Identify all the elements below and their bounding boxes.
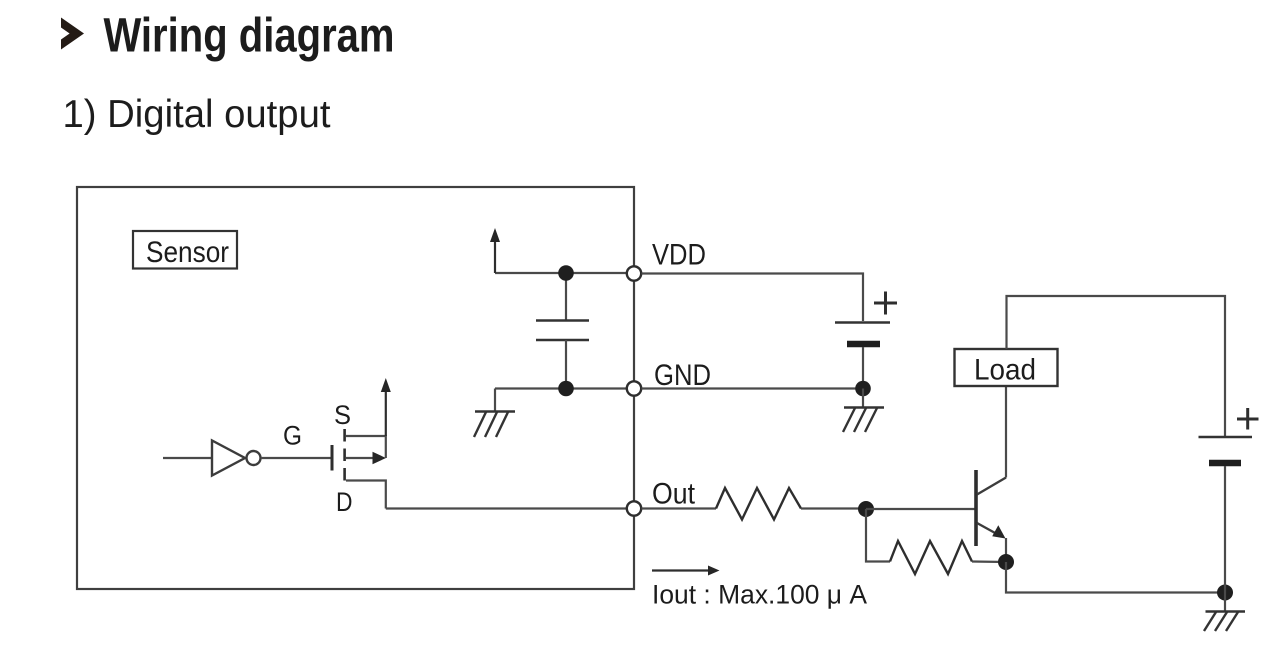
wire load top (1007, 296, 1226, 436)
wire node A down to R2 (866, 509, 890, 562)
capacitor C1 (536, 273, 589, 389)
transistor Q2 (976, 470, 1006, 546)
svg-text:Sensor: Sensor (146, 236, 229, 269)
node junction BT1/GND2 (855, 381, 871, 397)
wire VDD rail (495, 272, 630, 274)
svg-text:1) Digital output: 1) Digital output (63, 93, 331, 136)
wire GND rail (495, 387, 630, 389)
wire emitter down (1005, 538, 1007, 562)
resistor R2 (890, 541, 972, 574)
wire source (S) (346, 436, 386, 458)
svg-text:S: S (334, 400, 351, 430)
terminal GND (627, 359, 711, 396)
svg-text:VDD: VDD (652, 239, 706, 272)
svg-text:D: D (336, 487, 353, 517)
node A junction (858, 501, 874, 517)
svg-text:Out: Out (652, 478, 696, 511)
wire inverter to gate (261, 457, 331, 459)
node junction GND rail (558, 381, 574, 397)
ground GND2 (843, 389, 884, 433)
svg-text:GND: GND (654, 359, 711, 392)
terminal Out (627, 478, 696, 516)
wire drain (D) (346, 481, 386, 509)
ground GND1 (474, 389, 515, 438)
wire inverter input (163, 457, 212, 459)
ground GND3 (1204, 593, 1245, 632)
heading chevron (61, 18, 84, 50)
wire VDD to battery BT1 (642, 274, 864, 322)
wire R2 to node B (972, 560, 1006, 563)
arrow VDD supply (490, 228, 500, 273)
wire collector up to load (1005, 386, 1007, 478)
wire node A to base (866, 508, 975, 510)
arrow Iout (652, 566, 720, 576)
wire GND to battery BT1 (642, 387, 864, 389)
sensor box outline (77, 187, 634, 589)
wire emitter rail to node C (1006, 562, 1225, 593)
wire R1 to node A (801, 507, 866, 509)
load box (955, 349, 1058, 387)
arrow source supply (381, 378, 391, 436)
resistor R1 (716, 488, 801, 520)
svg-text:Load: Load (974, 354, 1036, 387)
battery BT2 (1199, 408, 1259, 593)
transistor Q1 (MOSFET) (332, 429, 386, 487)
node junction VDD rail (558, 265, 574, 281)
wire Out to resistor R1 (642, 507, 717, 509)
battery BT1 (835, 292, 897, 389)
node B junction (998, 554, 1014, 570)
svg-text:Wiring diagram: Wiring diagram (104, 10, 395, 63)
svg-text:G: G (283, 421, 302, 451)
terminal VDD (627, 239, 706, 281)
node C junction (1217, 585, 1233, 601)
svg-text:Iout : Max.100 μ A: Iout : Max.100 μ A (652, 580, 867, 610)
inverter A1 (212, 441, 261, 476)
sensor label (133, 231, 237, 269)
wire drain to Out terminal (386, 507, 628, 509)
